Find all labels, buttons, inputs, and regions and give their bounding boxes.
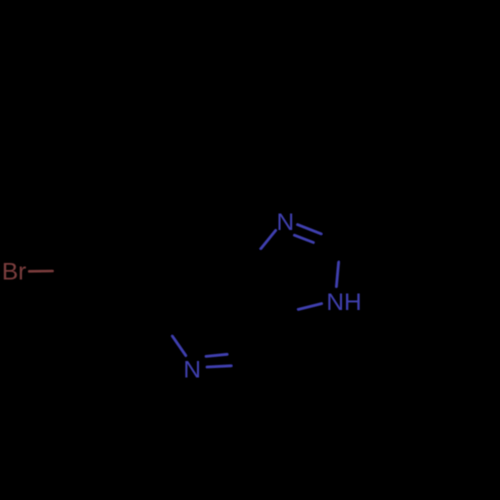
bond N3-C3a (carbon half, invisible black) — [280, 307, 298, 309]
bond C4-C3a (invisible black) — [254, 307, 280, 363]
bond N5=C4 (carbon half, invisible black) — [231, 363, 254, 366]
bond N1-C7a nitrogen half — [261, 230, 276, 248]
bond N3-C3a nitrogen half — [299, 304, 322, 310]
bond Br-C8 (carbon half, invisible black) — [52, 270, 76, 273]
bond C2-N3 (carbon half, invisible black) — [339, 248, 342, 262]
svg-text:Br: Br — [2, 259, 26, 286]
bond N5=C4 inner line nitrogen half — [207, 366, 231, 367]
cyclopentyl ring C1'-C2'-C3'-C4'-C5' (invisible black) — [355, 125, 457, 228]
bond C8-C7 (invisible black) — [76, 262, 183, 271]
bond C2-N3 nitrogen half — [336, 262, 338, 286]
bond N1=C2 main line nitrogen half — [298, 225, 322, 234]
bond C3a-C7a (invisible black) — [245, 256, 281, 307]
bond N1=C2 (carbon half, invisible black) — [321, 234, 345, 242]
bond C7a-N1 (carbon half, invisible black) — [245, 249, 261, 257]
bond C7-C6 (invisible black) — [157, 262, 183, 318]
bond C7-C7a (invisible black) — [183, 256, 245, 261]
bond N1=C2 inner line nitrogen half — [294, 235, 313, 242]
bond N5=C4 main line nitrogen half — [206, 354, 227, 356]
svg-text:NH: NH — [326, 289, 361, 316]
bond C2-C1' (invisible black) — [345, 228, 407, 242]
bond Br-C8 maroon half — [29, 270, 52, 273]
bond C6-N5 (carbon half, invisible black) — [157, 318, 173, 337]
svg-text:N: N — [183, 356, 201, 383]
bond N5-C6 nitrogen half — [173, 336, 186, 355]
svg-text:N: N — [276, 209, 294, 236]
